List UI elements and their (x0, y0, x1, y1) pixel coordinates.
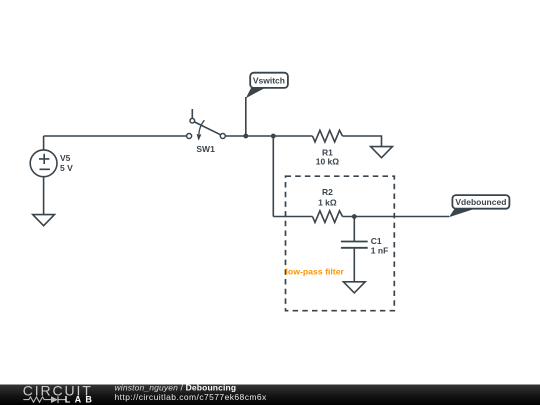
svg-text:SW1: SW1 (196, 144, 215, 154)
wire switch to R1 (225, 135, 312, 137)
Vswitch flag tail (246, 88, 266, 99)
svg-text:http://circuitlab.com/c7577ek6: http://circuitlab.com/c7577ek68cm6x (115, 392, 268, 402)
svg-text:10 kΩ: 10 kΩ (316, 157, 340, 167)
wire R2 to Vdebounced (343, 216, 450, 218)
svg-text:R2: R2 (322, 187, 333, 197)
svg-text:low-pass filter: low-pass filter (286, 267, 345, 277)
wire branch down to low-pass filter (272, 136, 274, 217)
capacitor C1 (341, 242, 368, 248)
voltage source V5 (30, 150, 57, 177)
footer bar (0, 385, 540, 405)
svg-text:Vswitch: Vswitch (253, 76, 285, 86)
svg-text:1 kΩ: 1 kΩ (318, 198, 337, 208)
Vswitch flag box (250, 73, 288, 88)
switch SW1 (187, 109, 226, 141)
svg-text:5 V: 5 V (60, 163, 73, 173)
junction node to R2 branch (271, 134, 276, 139)
Vswitch flag pole (245, 97, 247, 136)
wire R1 to ground (343, 136, 382, 147)
resistor R1 (313, 130, 343, 142)
Vdebounced flag box (452, 195, 509, 209)
ground under V5 (33, 215, 55, 226)
wire V5 top stub (43, 136, 45, 150)
logo wire resistor diode (23, 396, 66, 403)
junction node Vswitch (243, 134, 248, 139)
svg-text:V5: V5 (60, 153, 71, 163)
junction node C1 (352, 214, 357, 219)
svg-text:C1: C1 (371, 236, 382, 246)
svg-text:Vdebounced: Vdebounced (455, 197, 506, 207)
ground under C1 (343, 282, 365, 293)
svg-text:winston_nguyen / Debouncing: winston_nguyen / Debouncing (115, 383, 237, 393)
svg-text:1 nF: 1 nF (371, 246, 388, 256)
resistor R2 (313, 211, 343, 223)
annotation box low-pass filter (dashed) (286, 176, 395, 311)
wire junction to C1 (353, 217, 355, 242)
wire C1 to ground (353, 249, 355, 282)
svg-text:LAB: LAB (65, 395, 96, 405)
Vdebounced flag tail (449, 209, 476, 218)
wire to R2 (273, 216, 312, 218)
ground right of R1 (371, 147, 393, 158)
wire V5 bottom to ground (43, 177, 45, 215)
wire top from V5 to switch (44, 135, 187, 137)
